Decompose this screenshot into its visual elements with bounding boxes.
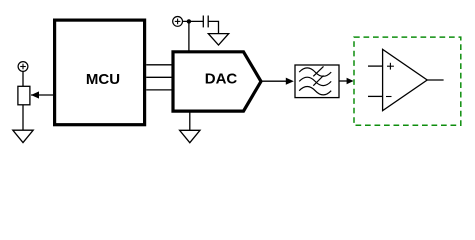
wire xyxy=(189,111,191,130)
capacitor C1 xyxy=(203,16,208,28)
supply V1 xyxy=(18,62,28,72)
wire xyxy=(22,105,24,130)
supply V2 xyxy=(173,17,183,27)
wire xyxy=(188,21,190,51)
MCU U1 xyxy=(55,20,145,125)
wire bus bit1 xyxy=(146,76,172,78)
wire bus bit2 xyxy=(146,89,172,91)
wire xyxy=(183,20,204,22)
wire bus bit0 xyxy=(146,64,172,66)
DAC U2 xyxy=(173,52,261,111)
wire DAC to filter with arrowhead xyxy=(261,78,294,85)
wire xyxy=(208,21,218,33)
junction xyxy=(187,19,191,23)
ground xyxy=(180,130,200,142)
wire filter to amplifier with arrowhead xyxy=(340,78,354,84)
op-amp U3 xyxy=(368,49,444,110)
ground xyxy=(13,130,33,142)
wire xyxy=(22,71,24,86)
resistor R1 xyxy=(18,86,30,105)
ground xyxy=(208,34,228,45)
svg-text:DAC: DAC xyxy=(205,70,238,87)
filter FL1 (low-pass) xyxy=(295,65,339,98)
amplifier stage boundary (dashed) xyxy=(354,37,461,125)
svg-text:MCU: MCU xyxy=(86,71,120,88)
wire MCU to R1 with arrowhead xyxy=(31,91,54,98)
